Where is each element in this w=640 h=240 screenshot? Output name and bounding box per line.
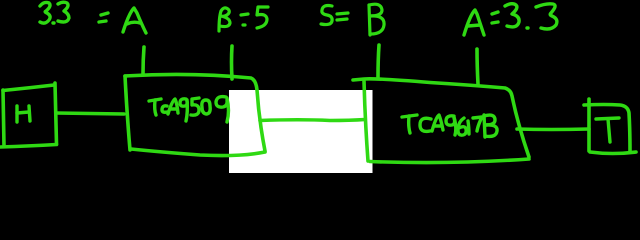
label B = 5 (pin B value) bbox=[219, 7, 268, 31]
pin stub S (U2) bbox=[378, 45, 379, 77]
label T bbox=[596, 118, 619, 142]
label TCA9509 bbox=[149, 97, 229, 122]
pin stub A (U2) bbox=[477, 49, 478, 84]
label S = B (net naming) bbox=[321, 4, 384, 35]
label 3.3 = A (net A level) bbox=[40, 2, 146, 33]
white erase patch bbox=[229, 90, 373, 173]
target block T bbox=[584, 99, 636, 154]
label H bbox=[17, 106, 30, 122]
wire U2 to T bbox=[517, 127, 589, 131]
label A = 3.3 (net A level) bbox=[464, 4, 557, 35]
IC U2 TCA9617B box bbox=[353, 79, 529, 163]
pin stub B (U1) bbox=[230, 46, 234, 79]
host block H bbox=[0, 83, 57, 147]
IC U1 TCA9509 box bbox=[125, 74, 265, 155]
wire U1 to U2 (over erase patch) bbox=[260, 120, 365, 121]
pin stub A (U1) bbox=[143, 47, 144, 74]
wire H to U1 bbox=[56, 113, 124, 114]
label TCA9617B bbox=[402, 115, 497, 137]
